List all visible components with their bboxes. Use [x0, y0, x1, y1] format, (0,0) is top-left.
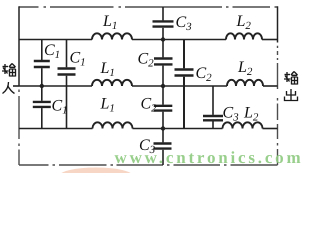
enclosure bottom dash-dot line [19, 164, 278, 166]
capacitor C3 (output side, x=213) stem top [212, 86, 214, 115]
wire top branch left [19, 39, 92, 41]
capacitor C2 third stem bottom [162, 112, 164, 129]
input terminal stub [13, 85, 19, 87]
junction node at C2/bottom branch [161, 126, 165, 130]
input bus / left border [18, 6, 20, 86]
wire top branch middle [132, 39, 226, 41]
junction node at C1/middle branch [40, 84, 44, 88]
capacitor C1 (third, x=41.8 lower) stem top [41, 86, 43, 101]
capacitor C2 first stem bottom [162, 66, 164, 86]
capacitor C1 (first, x=41.8) stem top [41, 40, 43, 61]
inductor L1 (middle branch) [92, 80, 132, 86]
capacitor C2 first plates [154, 59, 173, 65]
inductor L2 (middle branch) [227, 80, 263, 86]
入 char [3, 82, 15, 94]
wire top branch right [262, 39, 278, 41]
wire middle branch left [19, 85, 92, 87]
输 char [2, 64, 16, 77]
capacitor C1 stem bottom [41, 68, 43, 86]
capacitor C1 third plates [33, 102, 51, 107]
junction node at C3/top branch [161, 37, 165, 41]
junction node at C2/middle branch [161, 84, 165, 88]
inductor L1 (bottom branch) [93, 122, 133, 128]
capacitor C1 second plates [58, 69, 76, 75]
capacitor C3 bottom plates [154, 144, 172, 149]
wire middle branch centre [132, 85, 227, 87]
capacitor C3 bottom stem [162, 150, 164, 165]
capacitor C1 (second, x=66.5) stem top [66, 40, 68, 68]
capacitor C3 top plates [153, 21, 174, 26]
capacitor C3 output-side plates [203, 116, 223, 120]
chinese label 输出 (output), drawn strokes [284, 72, 298, 101]
capacitor C3 output-side stem bottom [212, 122, 214, 129]
wire bottom branch centre [133, 128, 223, 130]
capacitor C1 third stem bottom [41, 108, 43, 128]
capacitor C2 second plates [175, 70, 194, 76]
capacitor C3 (top, x=163) stem from enclosure line [162, 7, 164, 20]
capacitor C3 top stem bottom [162, 28, 164, 40]
inductor L1 (top branch) [92, 33, 132, 39]
capacitor C2 (second, x=184) stem top [183, 40, 185, 69]
output bus / right border [277, 6, 279, 42]
wire middle branch right [263, 85, 278, 87]
capacitor C2 third plates [154, 106, 173, 111]
wire bottom branch left [19, 128, 93, 130]
输 char [284, 72, 298, 85]
wire bottom branch right [263, 128, 278, 130]
capacitor C2 second stem bottom (crosses middle branch) [183, 77, 185, 129]
capacitor C2 (first, x=163) stem [162, 40, 164, 58]
inductor L2 (bottom branch) [223, 122, 263, 128]
inductor L2 (top branch) [226, 33, 262, 39]
enclosure top dash-dot line [19, 6, 278, 8]
capacitor C1 plates [34, 61, 50, 67]
capacitor C3 (bottom, x=163) stem top [162, 129, 164, 143]
出 char [285, 89, 298, 101]
svg-text:www.cntronics.com: www.cntronics.com [115, 148, 304, 167]
chinese label 输入 (input), drawn strokes [2, 64, 16, 94]
capacitor C1 second stem bottom (crosses middle branch) [66, 76, 68, 129]
watermark partial logo blob [59, 168, 133, 185]
capacitor C2 (third, x=163 lower) stem top [162, 86, 164, 105]
